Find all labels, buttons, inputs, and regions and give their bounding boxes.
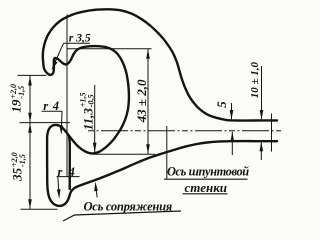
svg-text:11,3: 11,3 [80,108,95,131]
svg-text:r 4: r 4 [43,99,60,113]
extension line e3 (35 dim bottom) [21,208,58,210]
label underline: Ось шпунтовой [164,178,248,180]
label underline: стенки [183,193,228,195]
svg-text:-1,5: -1,5 [17,86,26,99]
leader arrow: axis of conjugation label [96,187,97,198]
profile outline: web top, arch, knob tip bend, saddle, eye, tooth capsule, bottom sweep, web bottom [43,9,277,206]
svg-text:стенки: стенки [185,180,228,195]
label underline: Ось сопряжения [63,211,181,221]
svg-text:5: 5 [214,101,229,108]
r 4 lower leader and shelf [57,176,80,178]
centerline: axis of sheet pile wall (dash-dot) [88,130,281,132]
svg-text:Ось сопряжения: Ось сопряжения [84,200,173,214]
svg-text:43 ± 2,0: 43 ± 2,0 [134,79,149,123]
svg-text:35: 35 [10,167,25,182]
tooth right wall [68,137,71,189]
extension line e4 (eye top, 43 dim top) [67,48,152,50]
svg-text:r 4: r 4 [58,165,77,179]
dimension line 10 (lower) [260,142,262,160]
dimension line 5 (upper) [231,103,233,119]
extension line e6 (right end) [271,114,273,152]
dimension line 35 [29,123,31,210]
svg-text:19: 19 [9,99,24,113]
extension line e1 (top of 19 dim) [18,74,47,76]
svg-text:r 3,5: r 3,5 [69,32,91,45]
extension line e2 (19/35 boundary, tooth crown tangent) [20,122,71,124]
dimension line 19 [29,75,31,122]
svg-text:-0,5: -0,5 [87,95,96,108]
dimension line 43 [147,49,149,155]
extension line e5 (eye bottom, 43/11.3 dim bottom) [93,153,155,155]
dimension line 11.3 [94,85,96,152]
dimension line 5 (lower, to centerline) [231,132,233,155]
dimension line 10 (upper) [261,66,263,119]
vertical mating axis line [66,15,68,177]
svg-text:10 ± 1,0: 10 ± 1,0 [249,62,261,99]
r 3,5 leader and shelf [64,42,91,44]
svg-text:Ось шпунтовой: Ось шпунтовой [167,165,249,179]
svg-text:-1,5: -1,5 [18,154,27,167]
leader: axis of sheet pile wall label [166,126,168,179]
r 4 upper leader and shelf [42,110,63,112]
